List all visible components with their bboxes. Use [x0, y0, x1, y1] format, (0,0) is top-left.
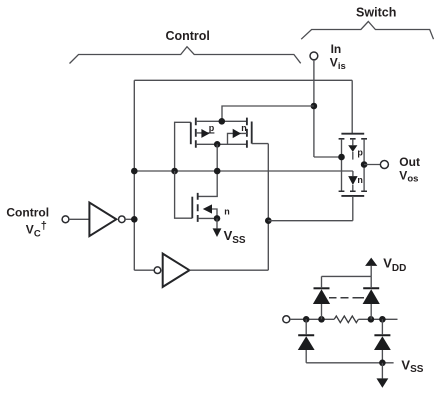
diode D3 (lower left)	[305, 319, 307, 334]
wire Out	[364, 164, 381, 166]
node A x134 y171	[131, 168, 138, 175]
transistor Q2 gate wire	[252, 143, 269, 145]
svg-text:p: p	[357, 147, 363, 157]
wire control input to inverter1	[69, 218, 90, 220]
inverter U1 triangle	[89, 203, 116, 237]
power VDD arrow	[370, 266, 372, 277]
svg-text:VSS: VSS	[224, 228, 246, 246]
wire In to switch left rail	[314, 156, 342, 158]
svg-text:VDD: VDD	[383, 255, 406, 274]
wire protection main line left	[290, 318, 334, 320]
terminal protection input (open circle)	[283, 316, 290, 323]
svg-text:n: n	[241, 123, 247, 133]
node U1 output junction	[131, 216, 138, 223]
wire U2 output	[189, 269, 268, 271]
node main line junctions	[303, 316, 310, 323]
diode D4 (lower right)	[381, 319, 383, 334]
switch p gate wire	[351, 80, 353, 133]
switch left rail	[341, 139, 343, 191]
transistor Q3 (small n to VSS) gate wire	[175, 171, 193, 218]
transistor Q5 gate wire	[352, 196, 354, 221]
svg-text:VC†: VC†	[26, 220, 47, 240]
svg-text:n: n	[224, 206, 230, 216]
ground VSS arrow (Q3)	[216, 218, 218, 228]
node Q3 source junction	[214, 215, 221, 222]
svg-text:Vos: Vos	[399, 169, 418, 185]
wire node B to switch n gate	[268, 220, 353, 222]
transistor Q1 body arrow	[201, 129, 209, 138]
transistor Q1 gate plate	[190, 122, 192, 144]
wire y106 to tgate top	[222, 106, 314, 121]
wire top rail to VDD	[322, 275, 372, 277]
svg-text:In: In	[331, 42, 342, 56]
terminal Out (open circle)	[380, 161, 388, 169]
wire node-A rail y171	[134, 170, 353, 172]
dashed distributed line	[329, 297, 364, 299]
diode D1 (upper left)	[321, 304, 323, 319]
transistor Q4 (switch p) gate plate	[341, 133, 364, 135]
svg-text:VSS: VSS	[401, 358, 423, 376]
node B junction x268 y220.7	[265, 217, 272, 224]
wire protection main line right	[358, 318, 397, 320]
diode D2 (upper right)	[370, 304, 372, 319]
terminal In (open circle)	[310, 52, 318, 60]
power VSS arrow (bottom)	[381, 363, 383, 379]
node tgate bottom junction	[214, 141, 221, 148]
transistor Q1 channel dashes	[195, 118, 197, 148]
transistor Q2 body arrow	[233, 129, 241, 138]
transistor Q4 body arrow	[352, 139, 354, 146]
wire bottom rail	[306, 362, 393, 364]
svg-text:Out: Out	[399, 155, 420, 169]
transistor Q5 gate plate	[341, 195, 364, 197]
transistor Q3 body lead	[212, 209, 217, 218]
transistor Q3 gate plate	[191, 197, 193, 219]
wire tgate top rail	[196, 120, 247, 122]
brace over Switch section	[301, 22, 433, 40]
wire In vertical	[313, 60, 315, 157]
wire left vertical node A	[133, 80, 135, 270]
transistor Q5 contact ticks	[339, 190, 367, 192]
svg-text:Vis: Vis	[330, 56, 346, 72]
transistor Q2 gate plate	[251, 122, 253, 144]
wire node B vertical x268	[267, 144, 269, 271]
node gate Q1/Q3 junction y171	[171, 168, 178, 175]
brace over Control section	[70, 47, 301, 64]
transistor Q3 body arrow	[203, 204, 212, 213]
node bottom rail junction	[379, 360, 386, 367]
inverter U2 input bubble	[154, 267, 161, 274]
transistor Q4 contact ticks	[339, 138, 367, 140]
terminal Control input (open circle)	[62, 216, 69, 223]
node Out junction	[361, 161, 368, 168]
svg-text:Switch: Switch	[356, 6, 396, 20]
wire tgate bottom to y171 and Q3 drain	[198, 144, 218, 196]
transistor Q3 channel dashes	[197, 193, 199, 222]
wire to inverter U2 input	[134, 269, 154, 271]
inverter U2 triangle	[163, 254, 190, 287]
transistor Q2 (small n, tgate right) channel dashes	[246, 118, 248, 148]
transistor Q1 (small p, tgate left) gate wire	[175, 122, 191, 171]
inverter U1 output bubble	[119, 216, 126, 223]
transistor Q1 body lead	[196, 132, 215, 134]
wire top rail inverter1-out to switch p gate	[134, 79, 352, 81]
node tgate top junction	[219, 118, 226, 125]
node y171 x217	[214, 168, 221, 175]
svg-text:n: n	[357, 175, 363, 185]
svg-text:p: p	[209, 123, 215, 133]
svg-text:Control: Control	[165, 29, 209, 43]
svg-text:Control: Control	[6, 206, 49, 220]
transistor Q5 (switch n) body arrow from y171	[352, 171, 354, 176]
transistor Q2 body lead	[228, 133, 247, 144]
node In junction (y=106)	[311, 103, 318, 110]
wire tgate bottom rail	[196, 143, 247, 145]
wire U1 bubble to node	[125, 218, 134, 220]
node In to left rail	[338, 154, 345, 161]
switch right rail	[363, 139, 365, 191]
resistor R1	[334, 316, 358, 323]
transistor Q3 source lead	[198, 217, 217, 219]
